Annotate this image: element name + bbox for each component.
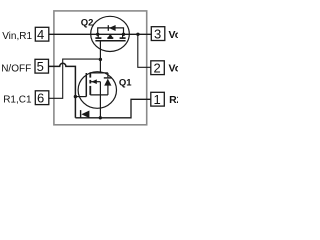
Q1 channel segment middle <box>89 80 91 84</box>
wire branch to pin2 <box>138 34 151 67</box>
svg-text:6: 6 <box>37 91 44 106</box>
junction dot Q2 gate node <box>99 58 102 61</box>
svg-text:R1,C1: R1,C1 <box>3 95 32 106</box>
Q2 body-diode arch <box>98 28 124 34</box>
Q2 channel segment middle <box>107 37 113 39</box>
Q2 diode triangle <box>109 25 116 31</box>
pin 4 box <box>35 27 49 41</box>
junction dot pin2 branch <box>136 33 139 36</box>
Q1 diode cathode bar <box>104 77 112 79</box>
pin 5 box <box>35 59 49 73</box>
transistor Q1 circle <box>78 72 116 109</box>
junction dot rail-source <box>96 33 99 36</box>
junction dot Q1 gate node <box>74 95 77 98</box>
svg-text:3: 3 <box>154 27 161 42</box>
svg-text:1: 1 <box>153 92 160 107</box>
Q1 channel segment bottom <box>89 86 91 95</box>
Q2 body stub <box>109 34 111 37</box>
junction dot rail-drain <box>122 33 125 36</box>
svg-text:5: 5 <box>37 59 44 74</box>
transistor Q2 circle <box>91 16 130 51</box>
svg-text:Q1: Q1 <box>119 77 132 88</box>
Q1 source lead <box>99 95 101 118</box>
Q1 diode top lead <box>107 73 109 77</box>
pin 2 box <box>151 61 165 75</box>
gate-source protection diode cathode bar <box>80 110 82 118</box>
svg-text:Q2: Q2 <box>81 18 94 29</box>
wire Q2 gate down to Q1 drain <box>99 41 101 73</box>
svg-text:4: 4 <box>37 27 44 42</box>
Q1 drain stub <box>90 72 108 74</box>
pin 1 box <box>151 92 165 106</box>
svg-text:Vo: Vo <box>169 63 179 75</box>
svg-text:2: 2 <box>153 61 160 76</box>
pin 3 box <box>151 27 165 41</box>
svg-text:N/OFF: N/OFF <box>1 64 31 75</box>
Q2 source stub <box>97 34 99 37</box>
Q1 gate bar <box>85 73 87 97</box>
Q2 channel segment left <box>95 37 101 39</box>
wire Q1 gate branch <box>75 96 86 98</box>
IC body outline <box>54 11 147 125</box>
gate-source protection diode triangle <box>81 111 89 119</box>
Q2 channel segment right <box>120 37 126 39</box>
Q2 gate bar <box>95 40 125 42</box>
Q1 source stub <box>90 94 108 96</box>
pin 6 box <box>35 91 49 105</box>
wire pin5 with hop to Q1 gate vertical <box>48 63 75 118</box>
svg-text:R2: R2 <box>169 94 178 106</box>
Q2 body arrow <box>108 34 114 38</box>
Q1 diode bottom lead <box>107 85 109 95</box>
svg-text:Vo: Vo <box>169 29 179 41</box>
Q2 drain stub <box>122 34 124 37</box>
Q1 body stub <box>90 81 100 83</box>
Q1 body-source tie <box>99 82 101 95</box>
Q2 diode cathode bar <box>107 25 109 31</box>
wire bottom rail to pin1 <box>75 99 150 118</box>
Q1 body arrow <box>91 79 97 84</box>
junction dot Q1 source rail <box>99 116 102 119</box>
Q1 diode triangle <box>104 79 111 86</box>
wire pin6 to Q2 gate node <box>49 59 101 98</box>
svg-text:Vin,R1: Vin,R1 <box>2 31 32 42</box>
wire pin4 to Q2 source rail to pin3 <box>49 33 152 35</box>
Q1 channel segment top <box>89 72 91 77</box>
